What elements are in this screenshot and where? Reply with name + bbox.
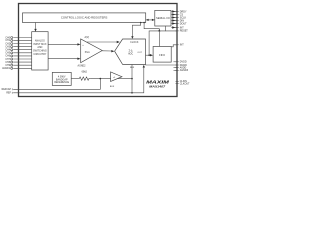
wire serial I/O to RESET pin [166,26,177,31]
label BUF below buffer [110,86,115,88]
bidirectional bus control logic to serial I/O [146,19,155,21]
svg-text:CH4: CH4 [5,50,10,52]
pin CH8 [11,61,32,63]
pin CH1 [11,39,32,41]
4.096V bandgap reference block [52,72,71,85]
svg-text:CONTROL LOGIC AND REGISTERS: CONTROL LOGIC AND REGISTERS [61,16,108,20]
pin CH3 [11,46,32,48]
wire mux to PGA lower input [48,58,80,60]
svg-text:AGND3: AGND3 [180,69,189,72]
svg-text:CH0: CH0 [5,37,10,39]
svg-text:ADC: ADC [128,53,133,56]
left pin labels REFCAP REF [2,88,12,95]
svg-text:INT: INT [180,26,184,29]
pin CH6 [11,55,32,57]
svg-text:MAXIM: MAXIM [146,80,169,85]
serial I/O block [155,10,171,26]
label AGND2 below PGA [78,64,87,67]
svg-text:INT: INT [180,44,184,47]
pin AGND1 [11,67,32,69]
wire serial I/O to ADC data path [149,31,166,55]
svg-text:AVDD: AVDD [180,66,187,69]
wire FIFO to control logic [144,23,160,47]
analog input mux and switching circuitry block [32,32,48,70]
svg-text:SCLK: SCLK [180,16,187,19]
wire REF pin to ADC reference input [12,65,145,94]
value label 60k ohm [82,72,88,74]
svg-text:BUF: BUF [110,86,115,88]
wire reference node to buffer and ADC [90,78,132,80]
svg-text:INPUT MUX: INPUT MUX [33,43,47,46]
pin CH0 [11,37,32,39]
pin CH9 [11,64,32,66]
svg-text:CH5: CH5 [5,53,10,55]
svg-text:CS: CS [180,13,184,16]
svg-text:CH7: CH7 [5,59,10,61]
junction on control box bottom (clock net) [140,22,142,24]
pin CH4 [11,49,32,51]
wire ADC bottom to DGND row [146,63,177,66]
svg-text:DOUT: DOUT [180,22,187,25]
svg-text:A(V): A(V) [85,36,90,39]
svg-text:CH2: CH2 [5,43,10,45]
svg-text:MAX1407: MAX1407 [149,84,166,88]
op-amp buffer [111,72,122,82]
svg-text:RESET: RESET [180,30,189,33]
junction buffer output to REF line [131,92,133,94]
arrow serial I/O to DOUT pin [171,22,177,24]
arrow serial I/O to SCLK pin [171,16,177,18]
label A(V) above PGA [85,36,90,39]
op-amp PGA [81,39,103,63]
svg-text:REFCAP: REFCAP [2,88,12,91]
control logic and registers block [23,13,146,23]
junction on ADC-FIFO wire [148,54,150,56]
label REF at ADC bottom [130,67,135,69]
right pin ticks [174,12,179,84]
svg-text:REFERENCE: REFERENCE [54,81,69,84]
resistor R1 [78,77,90,80]
svg-text:CH8: CH8 [5,62,10,64]
wire PGA upper output to ADC [87,41,120,43]
svg-text:CLOCK: CLOCK [130,41,139,44]
svg-text:DVDD: DVDD [180,61,187,64]
sigma-delta ADC block [115,39,146,64]
chip outline U1 MAX1407 [19,4,178,97]
svg-text:CH3: CH3 [5,46,10,48]
wire FIFO to INT pin [171,45,177,47]
arrow serial I/O to INT pin [171,26,177,28]
svg-text:BANDGAP: BANDGAP [56,78,68,81]
svg-text:OUT: OUT [137,52,142,54]
svg-text:60kΩ: 60kΩ [82,72,88,74]
svg-text:AND: AND [37,46,42,49]
svg-text:DRDY: DRDY [180,10,187,13]
MAXIM logo [146,80,169,85]
wire bandgap output [71,78,78,80]
wire control logic to mux [34,23,36,32]
FIFO block [153,47,171,63]
svg-text:REF: REF [6,93,11,95]
junction buffer output node [131,78,133,80]
left pin labels CH0-CH9 AGND1 [2,37,11,70]
svg-text:AGND2: AGND2 [78,64,87,67]
arrow serial I/O to DRDY pin [171,10,177,12]
svg-text:CLKOUT: CLKOUT [180,82,190,85]
svg-text:4.096V: 4.096V [58,75,66,78]
wire buffer output to ADC and REF net [131,65,133,93]
svg-text:CIRCUITRY: CIRCUITRY [33,53,46,56]
svg-text:CH1: CH1 [5,40,10,42]
wire control logic to ADC clock input [131,23,141,39]
junction on control box bottom (FIFO net) [143,22,145,24]
wire mux to PGA upper input [48,43,80,45]
pin CH2 [11,43,32,45]
svg-text:AGND1: AGND1 [2,67,11,70]
svg-text:Σ-Δ: Σ-Δ [129,49,133,52]
arrow serial I/O to CS pin [171,13,177,15]
svg-text:ANALOG: ANALOG [35,40,45,43]
svg-text:SWITCHING: SWITCHING [33,50,47,53]
wire REFCAP pin to reference node [12,79,100,91]
svg-text:CH6: CH6 [5,56,10,58]
arrow serial I/O to DIN pin [171,19,177,21]
right pin labels [180,10,190,85]
part number MAX1407 [149,84,166,88]
pin CH5 [11,52,32,54]
pin CH7 [11,58,32,60]
wire PGA apex output to ADC input vertex [102,50,114,52]
svg-text:CH9: CH9 [5,65,10,67]
svg-text:DIN: DIN [180,19,184,22]
wire ADC to FIFO [146,54,154,56]
svg-text:REF: REF [130,67,135,69]
junction REFCAP node [100,78,102,80]
